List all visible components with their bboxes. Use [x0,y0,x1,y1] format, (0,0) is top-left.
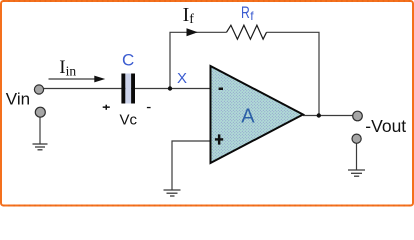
svg-text:Vin: Vin [6,90,30,109]
svg-text:Vc: Vc [120,112,138,129]
svg-text:A: A [241,105,255,127]
svg-text:-Vout: -Vout [365,116,406,136]
svg-text:X: X [177,70,187,87]
svg-text:R: R [241,4,250,22]
svg-text:C: C [122,50,134,69]
